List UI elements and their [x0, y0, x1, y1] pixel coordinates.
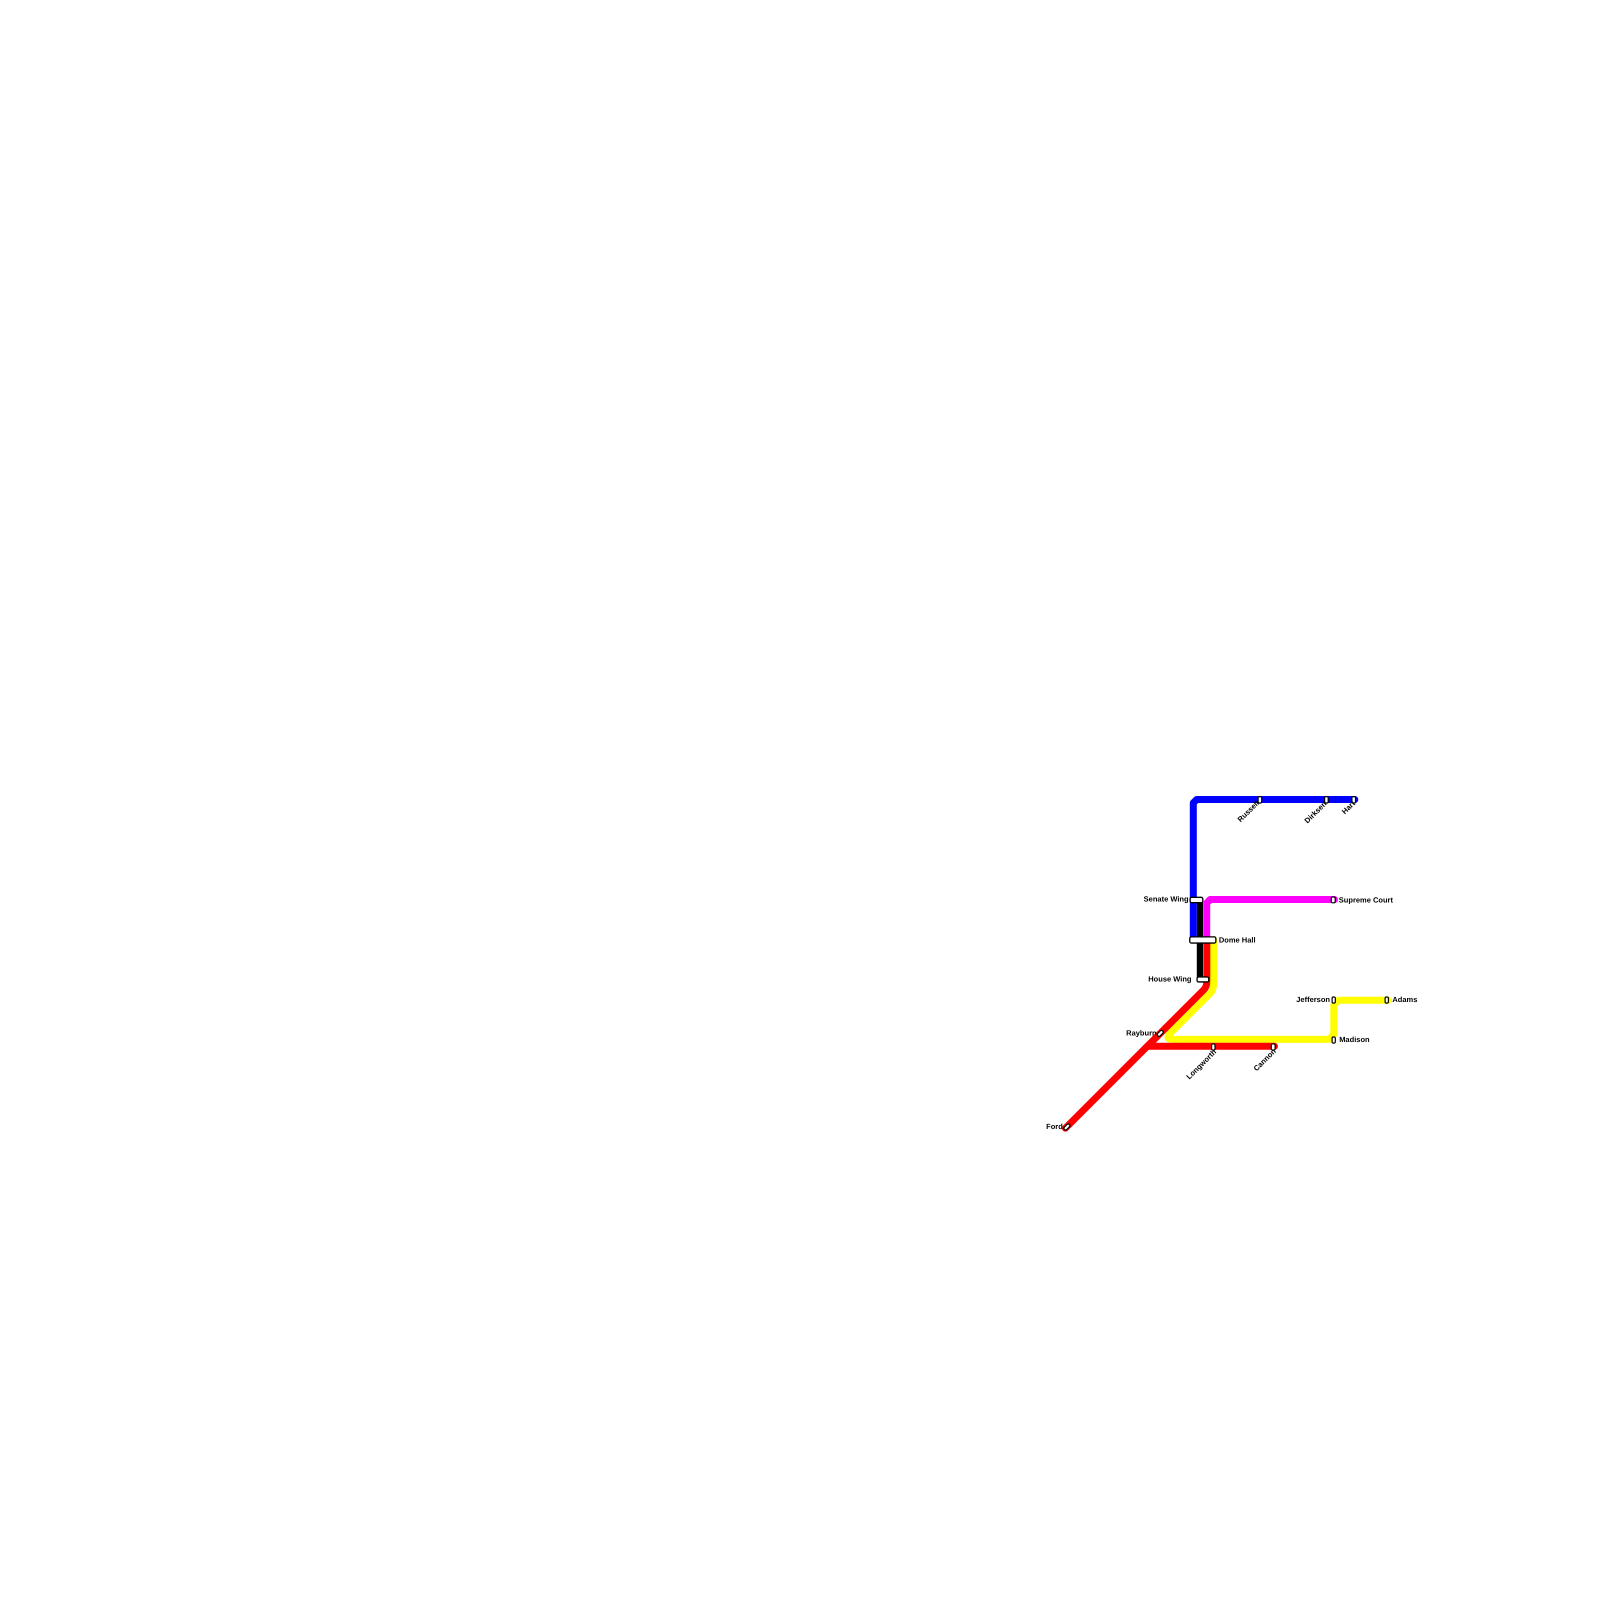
station Russell [1258, 797, 1262, 803]
svg-text:Adams: Adams [1392, 995, 1417, 1004]
station Rayburn [1157, 1030, 1164, 1037]
red line [1065, 940, 1206, 1129]
svg-text:Jefferson: Jefferson [1296, 995, 1330, 1004]
station Adams [1385, 997, 1388, 1003]
station Madison [1332, 1037, 1335, 1043]
svg-text:Senate Wing: Senate Wing [1144, 894, 1189, 903]
yellow line [1168, 940, 1388, 1040]
black line [1197, 898, 1203, 981]
station Supreme Court [1331, 897, 1335, 903]
svg-text:Rayburn: Rayburn [1126, 1028, 1157, 1037]
svg-text:House Wing: House Wing [1148, 974, 1192, 983]
red branch [1147, 1043, 1274, 1050]
svg-text:Madison: Madison [1339, 1035, 1370, 1044]
station Jefferson [1332, 997, 1335, 1003]
station Dome Hall [1190, 937, 1216, 943]
svg-text:Ford: Ford [1046, 1122, 1063, 1131]
blue line [1193, 800, 1355, 941]
station Senate Wing [1190, 897, 1203, 902]
svg-text:Dome Hall: Dome Hall [1219, 936, 1256, 945]
station House Wing [1197, 977, 1209, 982]
station Longworth [1212, 1044, 1215, 1050]
magenta line [1207, 900, 1335, 941]
station Hart [1352, 797, 1356, 803]
station Ford [1063, 1123, 1070, 1130]
station Dirksen [1325, 797, 1329, 803]
station Cannon [1271, 1044, 1275, 1050]
svg-text:Supreme Court: Supreme Court [1339, 895, 1394, 904]
